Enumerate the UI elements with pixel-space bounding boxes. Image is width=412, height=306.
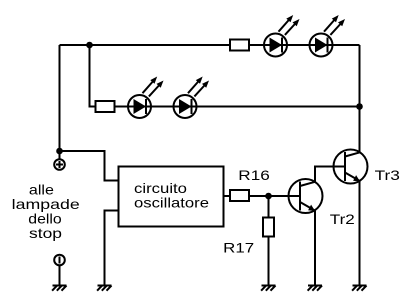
wire: Tr2 collector to Tr3 base (315, 167, 345, 182)
ground: Tr2 emitter (308, 286, 322, 291)
resistor (LED branch 2, unlabeled) (96, 101, 115, 112)
svg-text:stop: stop (29, 225, 62, 241)
wire: stop-lamp terminal to ground (59, 266, 61, 286)
block: circuito oscillatore (119, 167, 224, 227)
terminal: + battery (circle with plus) (54, 159, 65, 170)
svg-text:R17: R17 (223, 240, 254, 256)
wire: node to R17 top (268, 196, 270, 218)
ground: Tr3 emitter (352, 286, 366, 291)
wire: drop to LED branch 2 resistor (90, 45, 96, 107)
wire: oscillator box lower-left pin to ground (105, 211, 119, 286)
node: junction top rail / LED branch 2 (86, 42, 93, 49)
wire: left supply rail (59, 45, 61, 151)
ground: oscillator box (97, 286, 111, 291)
wire: supply junction to oscillator box input (60, 151, 119, 181)
wire: top supply rail (60, 44, 360, 46)
svg-text:oscillatore: oscillatore (134, 195, 209, 211)
node: junction LED branch 2 / Tr3 collector (356, 103, 363, 110)
svg-text:R16: R16 (238, 167, 270, 183)
node: junction R16 / R17 / Tr2 base (265, 193, 272, 200)
wire: oscillator output to R16 (224, 195, 231, 197)
wire: battery terminal stub (59, 151, 61, 159)
transistor Tr3 (334, 150, 368, 184)
ground: stop-lamp terminal (52, 286, 66, 291)
wire: Tr2 emitter to ground (314, 210, 316, 285)
wire: Tr3 collector to node B (359, 107, 361, 153)
ground: R17 (261, 286, 275, 291)
LED (branch 1, second) (310, 15, 346, 57)
wire: LED branch 2 rail (96, 106, 360, 108)
LED (branch 2, first) (128, 77, 164, 119)
svg-text:Tr2: Tr2 (330, 211, 355, 227)
node: junction supply / battery terminal (56, 148, 63, 155)
svg-text:Tr3: Tr3 (375, 167, 401, 183)
wire: right drop from top rail to node B (359, 45, 361, 107)
resistor (LED branch 1, unlabeled) (230, 40, 249, 51)
LED (branch 2, second) (174, 77, 210, 119)
terminal: stop-lamp output (circle with bar) (54, 255, 65, 266)
wire: Tr3 emitter to ground (359, 181, 361, 286)
transistor Tr2 (289, 179, 323, 213)
resistor R17 (263, 218, 274, 237)
LED (branch 1, first) (264, 15, 300, 57)
resistor R16 (230, 190, 249, 201)
wire: R17 bottom to ground (268, 237, 270, 286)
wire: R16 to Tr2 base (249, 195, 300, 197)
label: alle lampade dello stop (12, 182, 80, 242)
